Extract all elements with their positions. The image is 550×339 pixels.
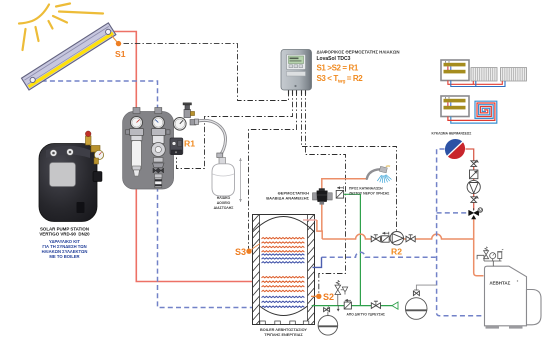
pump R2 xyxy=(390,232,403,245)
pump heating circuit xyxy=(467,180,480,193)
boiler safety group xyxy=(477,247,503,267)
wire radiator supply (red) xyxy=(448,81,502,85)
svg-text:ΛΕΒΗΤΑΣ: ΛΕΒΗΤΑΣ xyxy=(490,280,511,285)
wire S1 sensor cable xyxy=(124,44,289,101)
wire R2 pump cable xyxy=(302,91,397,232)
wire tank upper coil return xyxy=(322,252,437,257)
label thermostatic mixing valve xyxy=(266,191,309,201)
pump group supply line assembly with thermometer xyxy=(126,108,144,177)
shower icon xyxy=(367,166,392,183)
pressure gauge of pump group xyxy=(174,118,187,131)
solar pump station photo xyxy=(39,144,102,222)
small vessel under tank xyxy=(318,316,338,336)
label thermostat description xyxy=(317,50,400,62)
filter/check valve heating supply xyxy=(470,170,478,179)
label to hot water consumption xyxy=(349,187,389,196)
svg-text:ΒΑΛΒΙΔΑ ΑΝΑΜΕΙΞΗΣ: ΒΑΛΒΙΔΑ ΑΝΑΜΕΙΞΗΣ xyxy=(266,196,309,201)
svg-text:ΜΕ ΤΟ BOILER: ΜΕ ΤΟ BOILER xyxy=(49,254,79,259)
sensor S1 xyxy=(112,36,126,60)
check valve cold feed xyxy=(336,186,343,198)
svg-text:LovaSol TDC3: LovaSol TDC3 xyxy=(317,56,351,62)
svg-text:M: M xyxy=(479,209,482,213)
svg-text:ΑΠΟ ΔΙΚΤΥΟ ΥΔΡΕΥΣΗΣ: ΑΠΟ ΔΙΚΤΥΟ ΥΔΡΕΥΣΗΣ xyxy=(347,313,386,317)
radiator 1 xyxy=(471,68,497,82)
flexible hose to expansion vessel xyxy=(195,119,226,158)
svg-text:S3 < Ttarg = R2: S3 < Ttarg = R2 xyxy=(317,74,364,84)
svg-text:S3: S3 xyxy=(235,247,246,257)
wire boiler hot riser xyxy=(474,216,484,276)
drain cock xyxy=(324,307,330,316)
pump R1 motor box xyxy=(170,138,183,155)
safety valve with funnel xyxy=(335,280,348,305)
wire return branch to mixing valve xyxy=(437,212,467,214)
network connection arrow xyxy=(392,302,398,309)
thermostatic mixing valve xyxy=(313,188,333,204)
svg-text:VERTIGO VRD-90 DN20: VERTIGO VRD-90 DN20 xyxy=(39,232,90,237)
pump group return line assembly with pump xyxy=(151,108,170,188)
svg-text:BOILER ΛΕΒΗΤΟΣΤΑΣΙΟΥ: BOILER ΛΕΒΗΤΟΣΤΑΣΙΟΥ xyxy=(260,328,307,332)
svg-text:S1: S1 xyxy=(115,49,126,59)
heating circuit symbol (red/blue disc) xyxy=(445,139,465,159)
wire solar return pipe (blue dashed, tank to collector) xyxy=(34,81,260,308)
storage tank triple energy boiler xyxy=(253,214,315,329)
label solar pump station xyxy=(39,227,90,237)
svg-text:R1: R1 xyxy=(184,139,195,149)
heating manifold box 1 xyxy=(441,60,469,81)
three-way mixing valve with actuator xyxy=(469,208,483,220)
svg-text:ΤΡΙΠΛΗΣ ΕΝΕΡΓΕΙΑΣ: ΤΡΙΠΛΗΣ ΕΝΕΡΓΕΙΑΣ xyxy=(264,333,303,337)
svg-text:S2: S2 xyxy=(323,292,334,302)
sensor S2 xyxy=(311,292,334,302)
svg-text:ΠΡΟΣ ΚΑΤΑΝΑΛΩΣΗ: ΠΡΟΣ ΚΑΤΑΝΑΛΩΣΗ xyxy=(349,187,383,191)
wire S3 sensor cable xyxy=(249,91,297,249)
check valve cold main xyxy=(344,299,351,309)
dimension line beside vessel xyxy=(239,158,242,202)
svg-text:ΖΕΣΤΟΥ ΝΕΡΟΥ ΧΡΗΣΗΣ: ΖΕΣΤΟΥ ΝΕΡΟΥ ΧΡΗΣΗΣ xyxy=(349,191,389,195)
label hydraulic kit (blue) xyxy=(42,239,88,259)
tank upper heat exchanger coil (boiler side) xyxy=(262,238,305,264)
label solar expansion vessel xyxy=(214,196,234,210)
check valve on R2 line xyxy=(382,232,390,242)
svg-text:ΚΥΚΛΩΜΑ ΘΕΡΜΑΝΣΕΩΣ: ΚΥΚΛΩΜΑ ΘΕΡΜΑΝΣΕΩΣ xyxy=(432,132,472,136)
wire cold water main (green) xyxy=(312,305,392,307)
sun xyxy=(19,4,103,51)
boiler body xyxy=(485,266,542,328)
svg-text:R2: R2 xyxy=(391,247,402,257)
shutoff valve heating return side xyxy=(471,196,478,203)
heating manifold box 2 xyxy=(441,96,469,117)
underfloor heating spiral xyxy=(448,101,497,123)
sensor S3 xyxy=(235,244,260,257)
wire radiator return (blue) xyxy=(451,81,505,87)
svg-text:S1 >S2 = R1: S1 >S2 = R1 xyxy=(317,64,359,73)
expansion vessel heating xyxy=(405,285,436,319)
wire boiler loading line R2 (orange) xyxy=(322,234,474,239)
label tank xyxy=(260,328,307,337)
solar expansion vessel xyxy=(212,158,235,197)
wire hot water outlet stub (pink) xyxy=(303,219,317,221)
differential thermostat LovaSol TDC3 xyxy=(281,50,312,95)
wire cold water branch to mixing valve xyxy=(344,194,361,305)
shutoff valve heating supply xyxy=(471,160,478,167)
svg-text:ΔΙΑΦΟΡΙΚΟΣ ΘΕΡΜΟΣΤΑΤΗΣ ΗΛΙΑΚΩΝ: ΔΙΑΦΟΡΙΚΟΣ ΘΕΡΜΟΣΤΑΤΗΣ ΗΛΙΑΚΩΝ xyxy=(317,50,400,55)
wire R1 pump cable xyxy=(177,91,293,169)
wire mixing valve riser pipes xyxy=(322,179,367,191)
svg-text:ΔΙΑΣΤΟΛΗΣ: ΔΙΑΣΤΟΛΗΣ xyxy=(214,206,234,210)
shutoff valve left of pump R2 xyxy=(371,235,380,242)
wire heating supply column xyxy=(466,149,474,210)
wire heating return (blue dashed) xyxy=(437,149,484,316)
wire solar supply pipe (hot, collector to tank lower coil) xyxy=(112,32,259,282)
pump station brass fittings xyxy=(85,131,103,164)
tank lower heat exchanger coil (solar side) xyxy=(262,277,305,308)
solar collector panel xyxy=(21,23,115,90)
solar pump group panel xyxy=(123,112,174,190)
shutoff valve right of pump R2 xyxy=(406,235,415,242)
svg-text:ΔΟΧΕΙΟ: ΔΟΧΕΙΟ xyxy=(217,201,231,205)
safety relief valve of pump group xyxy=(183,103,196,125)
wire S2 sensor cable xyxy=(306,91,346,294)
svg-text:ΗΛΙΑΚΟ: ΗΛΙΑΚΟ xyxy=(217,196,231,200)
radiator 2 xyxy=(501,68,527,82)
drain tee arrow xyxy=(337,306,340,312)
shutoff valve cold main xyxy=(371,301,380,308)
